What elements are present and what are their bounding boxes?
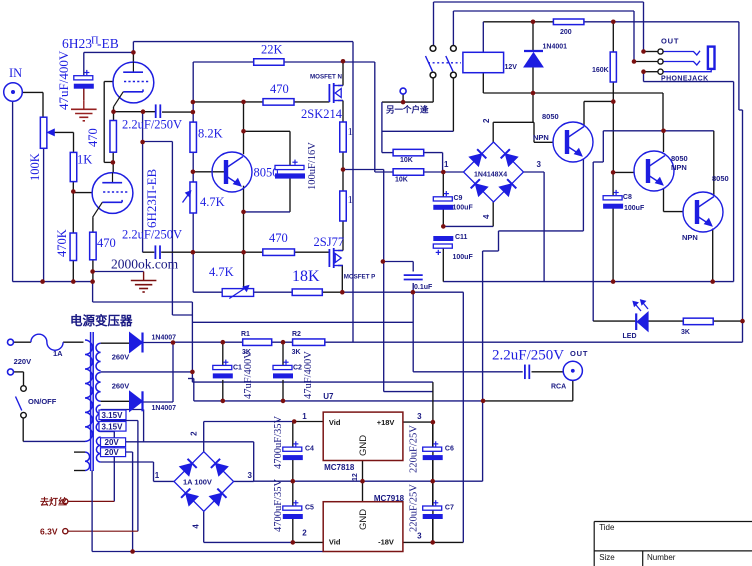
svg-text:6H23: 6H23 <box>62 36 92 51</box>
svg-text:4: 4 <box>192 524 201 529</box>
svg-text:220uF/25V: 220uF/25V <box>409 484 420 532</box>
svg-text:4700uF/35V: 4700uF/35V <box>273 415 284 469</box>
svg-text:47uF/400V: 47uF/400V <box>243 351 254 399</box>
svg-text:20V: 20V <box>105 448 120 457</box>
svg-text:-18V: -18V <box>378 538 394 547</box>
svg-text:2000ok.com: 2000ok.com <box>111 257 179 272</box>
svg-text:Vid: Vid <box>329 418 341 427</box>
svg-text:C2: C2 <box>293 365 302 372</box>
svg-text:LED: LED <box>623 333 637 340</box>
svg-text:C8: C8 <box>623 194 632 201</box>
svg-text:12V: 12V <box>505 64 518 71</box>
svg-text:U7: U7 <box>323 392 334 401</box>
svg-text:C7: C7 <box>445 505 454 512</box>
svg-text:470: 470 <box>269 231 288 245</box>
svg-text:GND: GND <box>358 435 369 456</box>
svg-text:12: 12 <box>352 473 359 481</box>
svg-text:NPN: NPN <box>533 133 549 142</box>
svg-text:2: 2 <box>482 118 491 123</box>
svg-text:1: 1 <box>302 412 307 421</box>
svg-text:220V: 220V <box>14 357 32 366</box>
svg-text:100uF: 100uF <box>453 205 474 212</box>
svg-text:C9: C9 <box>454 195 463 202</box>
svg-text:4.7K: 4.7K <box>200 195 225 209</box>
svg-text:C6: C6 <box>445 446 454 453</box>
svg-text:Tide: Tide <box>599 523 615 532</box>
svg-text:2.2uF/250V: 2.2uF/250V <box>122 118 182 132</box>
svg-text:260V: 260V <box>112 381 130 390</box>
svg-text:1N4001: 1N4001 <box>543 44 568 51</box>
svg-text:3: 3 <box>417 412 422 421</box>
svg-text:8.2K: 8.2K <box>198 127 223 141</box>
svg-text:NPN: NPN <box>671 163 687 172</box>
svg-text:3K: 3K <box>292 349 301 356</box>
svg-text:20V: 20V <box>105 438 120 447</box>
svg-text:R2: R2 <box>292 331 301 338</box>
svg-text:8050: 8050 <box>542 112 559 121</box>
svg-text:3K: 3K <box>681 329 690 336</box>
svg-text:MOSFET N: MOSFET N <box>310 74 342 81</box>
svg-text:C5: C5 <box>305 505 314 512</box>
svg-text:MC7818: MC7818 <box>324 463 355 472</box>
svg-text:2: 2 <box>302 529 307 538</box>
svg-text:0.1uF: 0.1uF <box>414 284 433 291</box>
svg-text:470: 470 <box>270 82 289 96</box>
svg-text:另一个户逄: 另一个户逄 <box>386 105 429 115</box>
svg-text:RCA: RCA <box>551 384 566 391</box>
svg-text:C11: C11 <box>455 234 468 241</box>
svg-text:100uF: 100uF <box>453 254 474 261</box>
svg-text:ON/OFF: ON/OFF <box>28 397 57 406</box>
svg-text:MOSFET P: MOSFET P <box>344 274 376 281</box>
svg-text:220uF/25V: 220uF/25V <box>409 425 420 473</box>
svg-text:OUT: OUT <box>661 37 679 46</box>
svg-text:18K: 18K <box>292 268 320 285</box>
svg-text:6.3V: 6.3V <box>40 527 58 537</box>
svg-text:100K: 100K <box>28 153 42 181</box>
svg-text:GND: GND <box>358 509 369 530</box>
svg-text:100uF: 100uF <box>624 205 645 212</box>
svg-text:2SJ77: 2SJ77 <box>314 235 345 249</box>
svg-text:1N4148X4: 1N4148X4 <box>474 172 507 179</box>
svg-text:1A 100V: 1A 100V <box>183 478 212 487</box>
svg-text:470K: 470K <box>55 229 69 257</box>
svg-text:200: 200 <box>560 29 572 36</box>
svg-text:1N4007: 1N4007 <box>152 405 177 412</box>
svg-text:电源变压器: 电源变压器 <box>70 313 133 328</box>
svg-text:R1: R1 <box>241 331 250 338</box>
svg-text:2SK214: 2SK214 <box>301 107 343 121</box>
svg-text:260V: 260V <box>112 353 130 362</box>
svg-text:160K: 160K <box>592 67 609 74</box>
svg-text:3: 3 <box>537 160 542 169</box>
svg-text:3: 3 <box>248 471 253 480</box>
svg-text:1A: 1A <box>53 349 63 358</box>
svg-text:Size: Size <box>599 553 615 562</box>
svg-text:10K: 10K <box>400 157 413 164</box>
svg-text:4: 4 <box>482 214 491 219</box>
svg-text:1: 1 <box>155 471 160 480</box>
svg-text:100uF/16V: 100uF/16V <box>307 142 318 190</box>
svg-text:3.15V: 3.15V <box>102 422 124 431</box>
svg-text:1: 1 <box>348 126 354 138</box>
svg-text:6H23Π-EB: 6H23Π-EB <box>144 168 159 228</box>
svg-text:C1: C1 <box>233 365 242 372</box>
svg-text:2: 2 <box>190 431 199 436</box>
svg-text:47uF/400V: 47uF/400V <box>303 351 314 399</box>
svg-text:1: 1 <box>444 160 449 169</box>
svg-text:C4: C4 <box>305 446 314 453</box>
svg-text:IN: IN <box>9 66 22 80</box>
svg-text:PHONEJACK: PHONEJACK <box>661 76 709 83</box>
svg-text:8050: 8050 <box>671 154 688 163</box>
svg-text:2.2uF/250V: 2.2uF/250V <box>492 348 564 364</box>
svg-text:22K: 22K <box>261 43 283 57</box>
svg-text:2.2uF/250V: 2.2uF/250V <box>122 228 182 242</box>
svg-text:4700uF/35V: 4700uF/35V <box>273 478 284 532</box>
svg-text:470: 470 <box>97 236 116 250</box>
svg-text:470: 470 <box>86 128 100 147</box>
svg-text:1K: 1K <box>77 153 92 167</box>
svg-text:47uF/400V: 47uF/400V <box>56 50 71 110</box>
svg-text:8050: 8050 <box>712 174 729 183</box>
svg-text:NPN: NPN <box>682 233 698 242</box>
svg-text:OUT: OUT <box>570 349 588 358</box>
svg-text:Vid: Vid <box>329 538 341 547</box>
svg-text:+18V: +18V <box>377 418 395 427</box>
svg-text:10K: 10K <box>395 177 408 184</box>
svg-text:-EB: -EB <box>97 36 119 51</box>
svg-text:Number: Number <box>647 553 676 562</box>
svg-text:1: 1 <box>348 194 354 206</box>
svg-text:MC7918: MC7918 <box>374 494 405 503</box>
svg-text:3.15V: 3.15V <box>102 411 124 420</box>
svg-text:4.7K: 4.7K <box>209 265 234 279</box>
